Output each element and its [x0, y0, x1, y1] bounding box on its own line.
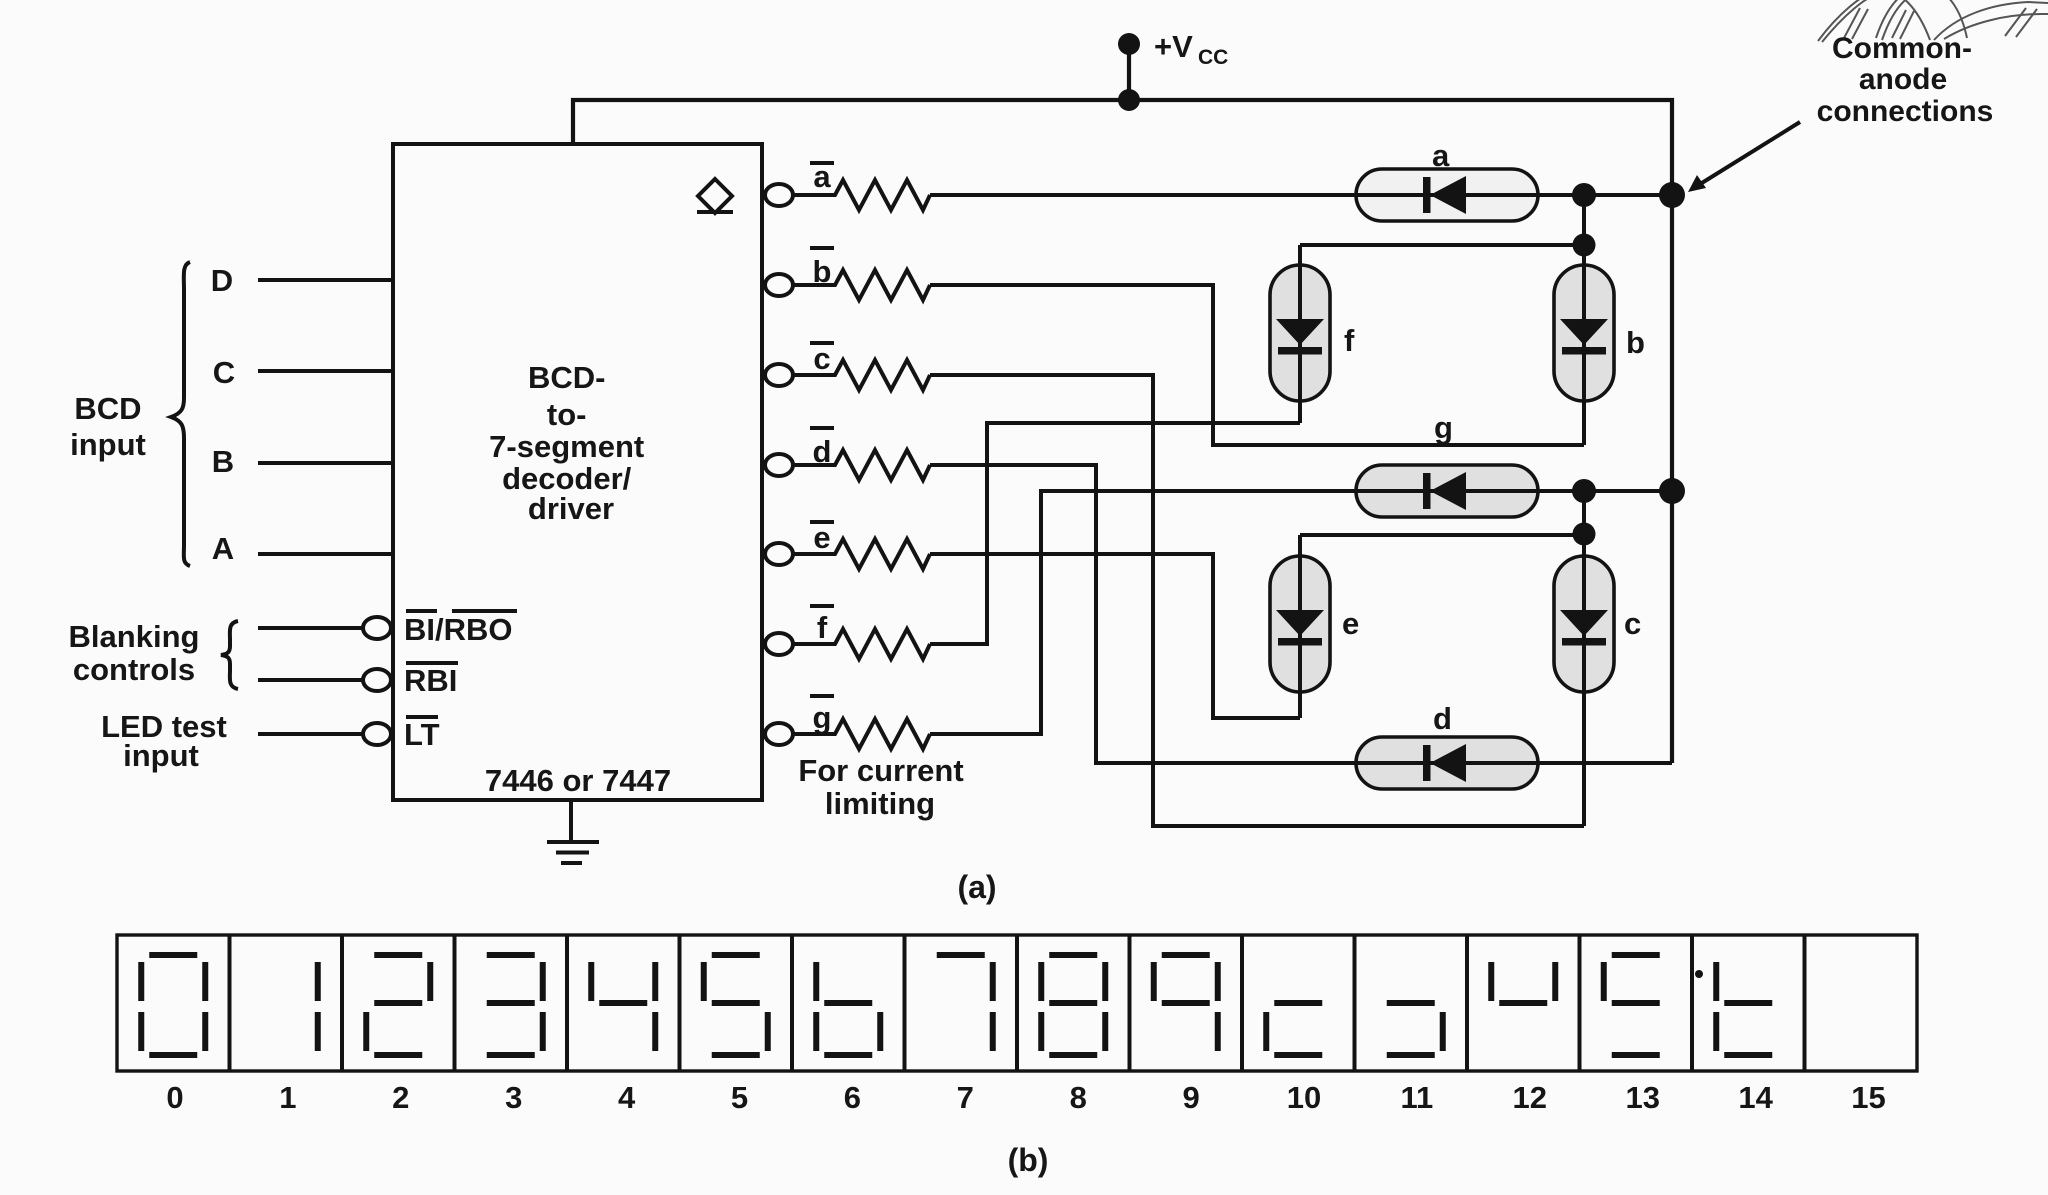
- LED segment b (vertical stadium): [1554, 265, 1614, 401]
- wire Vcc stub: [1127, 44, 1131, 100]
- diode in LED g: [1423, 472, 1466, 510]
- svg-text:Blankingcontrols: Blankingcontrols: [69, 619, 200, 687]
- svg-text:11: 11: [1401, 1080, 1434, 1115]
- output f label: [810, 606, 834, 645]
- wire net a: [930, 193, 1672, 197]
- LT pin label: [404, 717, 440, 752]
- BI/RBO pin label: [404, 611, 517, 647]
- resistor Re: [793, 539, 930, 569]
- output a label: [810, 159, 834, 194]
- svg-text:e: e: [1342, 606, 1359, 641]
- BI/RBO input wire: [258, 626, 363, 630]
- wire net f: [930, 423, 1300, 644]
- output a bubble: [765, 184, 793, 206]
- doodle: [1818, 0, 2048, 42]
- svg-text:a: a: [1432, 138, 1450, 173]
- svg-text:13: 13: [1625, 1080, 1659, 1115]
- svg-text:6: 6: [844, 1080, 861, 1115]
- anode rail f-b: [1300, 243, 1584, 247]
- decimal numbers 0-15: [166, 1080, 1885, 1115]
- svg-text:10: 10: [1287, 1080, 1321, 1115]
- wire net e: [930, 554, 1300, 718]
- svg-text:B: B: [212, 444, 234, 479]
- svg-text:8: 8: [1070, 1080, 1087, 1115]
- resistor Rb: [793, 270, 930, 300]
- svg-text:BI/RBO: BI/RBO: [404, 612, 513, 647]
- LED segment d (bottom horizontal stadium): [1356, 737, 1538, 789]
- junction dot: common-anode node on Vcc rail (row a): [1659, 182, 1685, 208]
- resistor Rd: [793, 450, 930, 480]
- output e bubble: [765, 543, 793, 565]
- diode in LED f: [1276, 319, 1324, 355]
- svg-text:(b): (b): [1008, 1142, 1049, 1178]
- svg-text:1: 1: [279, 1080, 296, 1115]
- wire through LED e: [1298, 535, 1302, 718]
- BCD input brace: [171, 262, 190, 566]
- output c bubble: [765, 364, 793, 386]
- svg-text:7: 7: [957, 1080, 974, 1115]
- junction dot: b/f anode rail tap: [1573, 234, 1596, 257]
- output g label: [810, 696, 834, 735]
- resistor Rg: [793, 719, 930, 749]
- wire net d: [930, 465, 1672, 763]
- svg-text:4: 4: [618, 1080, 636, 1115]
- junction dot: Vcc stub to rail: [1118, 89, 1140, 111]
- Vcc rail wire: [573, 100, 1672, 763]
- svg-text:7446 or 7447: 7446 or 7447: [485, 763, 671, 798]
- junction dot: common-anode node on Vcc rail (row g): [1659, 478, 1685, 504]
- svg-text:2: 2: [392, 1080, 409, 1115]
- svg-text:g: g: [1434, 410, 1453, 445]
- svg-text:e: e: [813, 520, 830, 555]
- wire through LED f: [1298, 245, 1302, 423]
- svg-text:RBI: RBI: [404, 663, 457, 698]
- svg-text:d: d: [1433, 701, 1452, 736]
- LT input wire: [258, 732, 363, 736]
- output c label: [810, 341, 834, 376]
- svg-text:D: D: [211, 263, 233, 298]
- open-collector symbol: [697, 179, 733, 213]
- svg-text:0: 0: [166, 1080, 183, 1115]
- svg-text:14: 14: [1738, 1080, 1773, 1115]
- svg-text:9: 9: [1182, 1080, 1199, 1115]
- output f bubble: [765, 633, 793, 655]
- svg-text:5: 5: [731, 1080, 748, 1115]
- svg-text:3: 3: [505, 1080, 522, 1115]
- diode in LED e: [1276, 610, 1324, 646]
- svg-text:f: f: [817, 610, 828, 645]
- svg-text:A: A: [212, 531, 234, 566]
- output b bubble: [765, 274, 793, 296]
- svg-text:C: C: [213, 355, 235, 390]
- LED segment c (vertical stadium): [1554, 556, 1614, 692]
- junction dot: LED g anode to c/e rail: [1572, 479, 1596, 503]
- diode in LED a: [1423, 176, 1466, 214]
- diode in LED b: [1560, 319, 1608, 355]
- junction dot: LED a anode to b/f rail: [1572, 183, 1596, 207]
- svg-text:+V: +V: [1154, 29, 1193, 64]
- wire through LED c: [1582, 491, 1586, 826]
- svg-text:15: 15: [1851, 1080, 1885, 1115]
- junction dot: c/e anode rail tap: [1573, 523, 1596, 546]
- display cell dividers: [230, 935, 1805, 1071]
- display panel frame: [117, 935, 1917, 1071]
- output g bubble: [765, 723, 793, 745]
- LED segment a (horizontal stadium): [1356, 169, 1538, 221]
- svg-text:c: c: [813, 341, 830, 376]
- ground: [547, 800, 599, 863]
- diode in LED c: [1560, 610, 1608, 646]
- output b label: [810, 248, 834, 289]
- wire net g: [930, 491, 1672, 734]
- LED segment g (middle horizontal stadium): [1356, 465, 1538, 517]
- resistor Rc: [793, 360, 930, 390]
- svg-text:b: b: [1626, 325, 1645, 360]
- svg-text:LT: LT: [404, 717, 440, 752]
- svg-text:12: 12: [1513, 1080, 1547, 1115]
- blanking brace: [221, 621, 238, 689]
- resistor Ra: [793, 180, 930, 210]
- svg-text:c: c: [1624, 606, 1641, 641]
- +Vcc power node: [1118, 33, 1140, 55]
- wire through LED b: [1582, 195, 1586, 445]
- output d bubble: [765, 454, 793, 476]
- seven-segment digit patterns 0-15: [141, 955, 1772, 1055]
- wire net c: [930, 375, 1584, 826]
- svg-text:CC: CC: [1198, 46, 1228, 69]
- svg-text:(a): (a): [957, 869, 996, 905]
- wire net b: [930, 285, 1584, 445]
- stray dot: [1695, 970, 1703, 978]
- svg-text:f: f: [1344, 323, 1355, 358]
- RBI input wire: [258, 678, 363, 682]
- annotation arrow: [1697, 122, 1800, 186]
- LED segment f (vertical stadium): [1270, 265, 1330, 401]
- output d label: [810, 428, 834, 469]
- LED segment e (vertical stadium): [1270, 556, 1330, 692]
- diode in LED d: [1423, 744, 1466, 782]
- anode rail e-c: [1300, 533, 1584, 537]
- IC U1 box 7446/7447: [393, 144, 762, 800]
- resistor Rf: [793, 629, 930, 659]
- svg-text:g: g: [813, 700, 832, 735]
- svg-text:BCDinput: BCDinput: [70, 391, 146, 462]
- output e label: [810, 520, 834, 555]
- RBI pin label: [404, 663, 458, 698]
